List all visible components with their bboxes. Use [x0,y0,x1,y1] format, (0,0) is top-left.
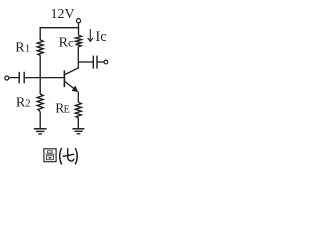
node output terminal [104,60,108,64]
svg-text:c: c [68,36,73,50]
resistor R2 [37,94,43,112]
wire output capacitor to output terminal [98,61,104,63]
label RE [55,101,70,116]
wire RE to ground [77,118,79,129]
wire R1 bottom to base node to R2 top [39,55,41,94]
caption character 圖 [44,149,56,162]
caption character 七 [63,148,75,161]
resistor R1 [37,40,43,55]
svg-text:12V: 12V [51,7,75,22]
wire collector node to output capacitor [78,61,92,63]
svg-text:2: 2 [25,98,30,109]
label R1 [15,40,30,55]
node 12V supply terminal [76,19,80,29]
ground R2 [34,129,47,134]
svg-text:E: E [64,105,70,116]
svg-text:R: R [15,40,25,55]
ground RE [72,129,84,134]
wire capacitor to base [25,77,64,79]
resistor Rc [76,35,82,47]
wire R2 to ground [39,112,41,129]
caption closing parenthesis [75,148,77,164]
label Ic [95,29,106,45]
capacitor output coupling [93,56,97,69]
svg-text:1: 1 [25,43,30,54]
transistor Q1 emitter lead with arrow [65,82,78,103]
transistor Q1 base bar [63,70,65,87]
capacitor input coupling [19,72,24,84]
wire input terminal to capacitor [9,77,19,79]
wire top supply rail [40,28,78,41]
caption opening parenthesis [60,148,62,164]
label Rc [59,36,74,51]
current arrow Ic [88,29,93,41]
transistor Q1 collector lead [65,47,78,75]
node input terminal [5,76,9,80]
svg-text:Ic: Ic [95,29,106,45]
label R2 [16,95,31,110]
label 12V [51,7,75,22]
resistor RE [75,102,81,118]
